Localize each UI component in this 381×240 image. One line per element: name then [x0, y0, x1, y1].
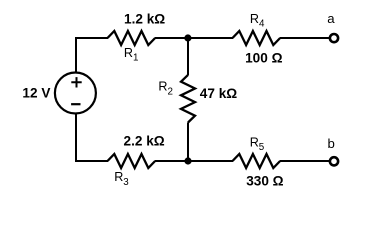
- svg-text:330 Ω: 330 Ω: [246, 174, 283, 189]
- resistor R3 zigzag 2.2k: [108, 154, 156, 168]
- svg-text:12 V: 12 V: [22, 86, 50, 101]
- wire R4 to terminal a: [280, 37, 330, 39]
- svg-text:2.2 kΩ: 2.2 kΩ: [124, 134, 165, 149]
- wire R5 to terminal b: [280, 160, 330, 162]
- resistor R5 zigzag 330: [233, 154, 281, 168]
- svg-text:100 Ω: 100 Ω: [245, 51, 282, 66]
- svg-text:47 kΩ: 47 kΩ: [200, 86, 237, 101]
- resistor R4 zigzag 100: [233, 31, 281, 45]
- resistor R2 zigzag 47k vertical: [181, 75, 195, 123]
- voltage source V1 circle: [55, 73, 96, 114]
- voltage source minus sign: [71, 103, 80, 105]
- wire R3 to R5 through node at bottom of R2: [155, 160, 233, 162]
- svg-text:b: b: [328, 136, 335, 151]
- wire top node to R2: [187, 38, 189, 75]
- wire top-left corner from source to R1: [76, 38, 108, 73]
- wire R2 to bottom node: [187, 122, 189, 161]
- svg-text:1.2 kΩ: 1.2 kΩ: [124, 11, 165, 26]
- voltage source plus sign: [71, 77, 81, 87]
- svg-text:a: a: [327, 11, 335, 26]
- resistor R1 zigzag 1.2k: [108, 31, 156, 45]
- junction node top (R1/R4/R2): [184, 34, 191, 41]
- junction node bottom (R3/R5/R2): [184, 157, 191, 164]
- terminal a circle: [330, 34, 338, 42]
- wire R1 to R4 through node at top of R2: [155, 37, 233, 39]
- terminal b circle: [330, 157, 338, 165]
- wire bottom-left corner from source to R3: [76, 113, 108, 161]
